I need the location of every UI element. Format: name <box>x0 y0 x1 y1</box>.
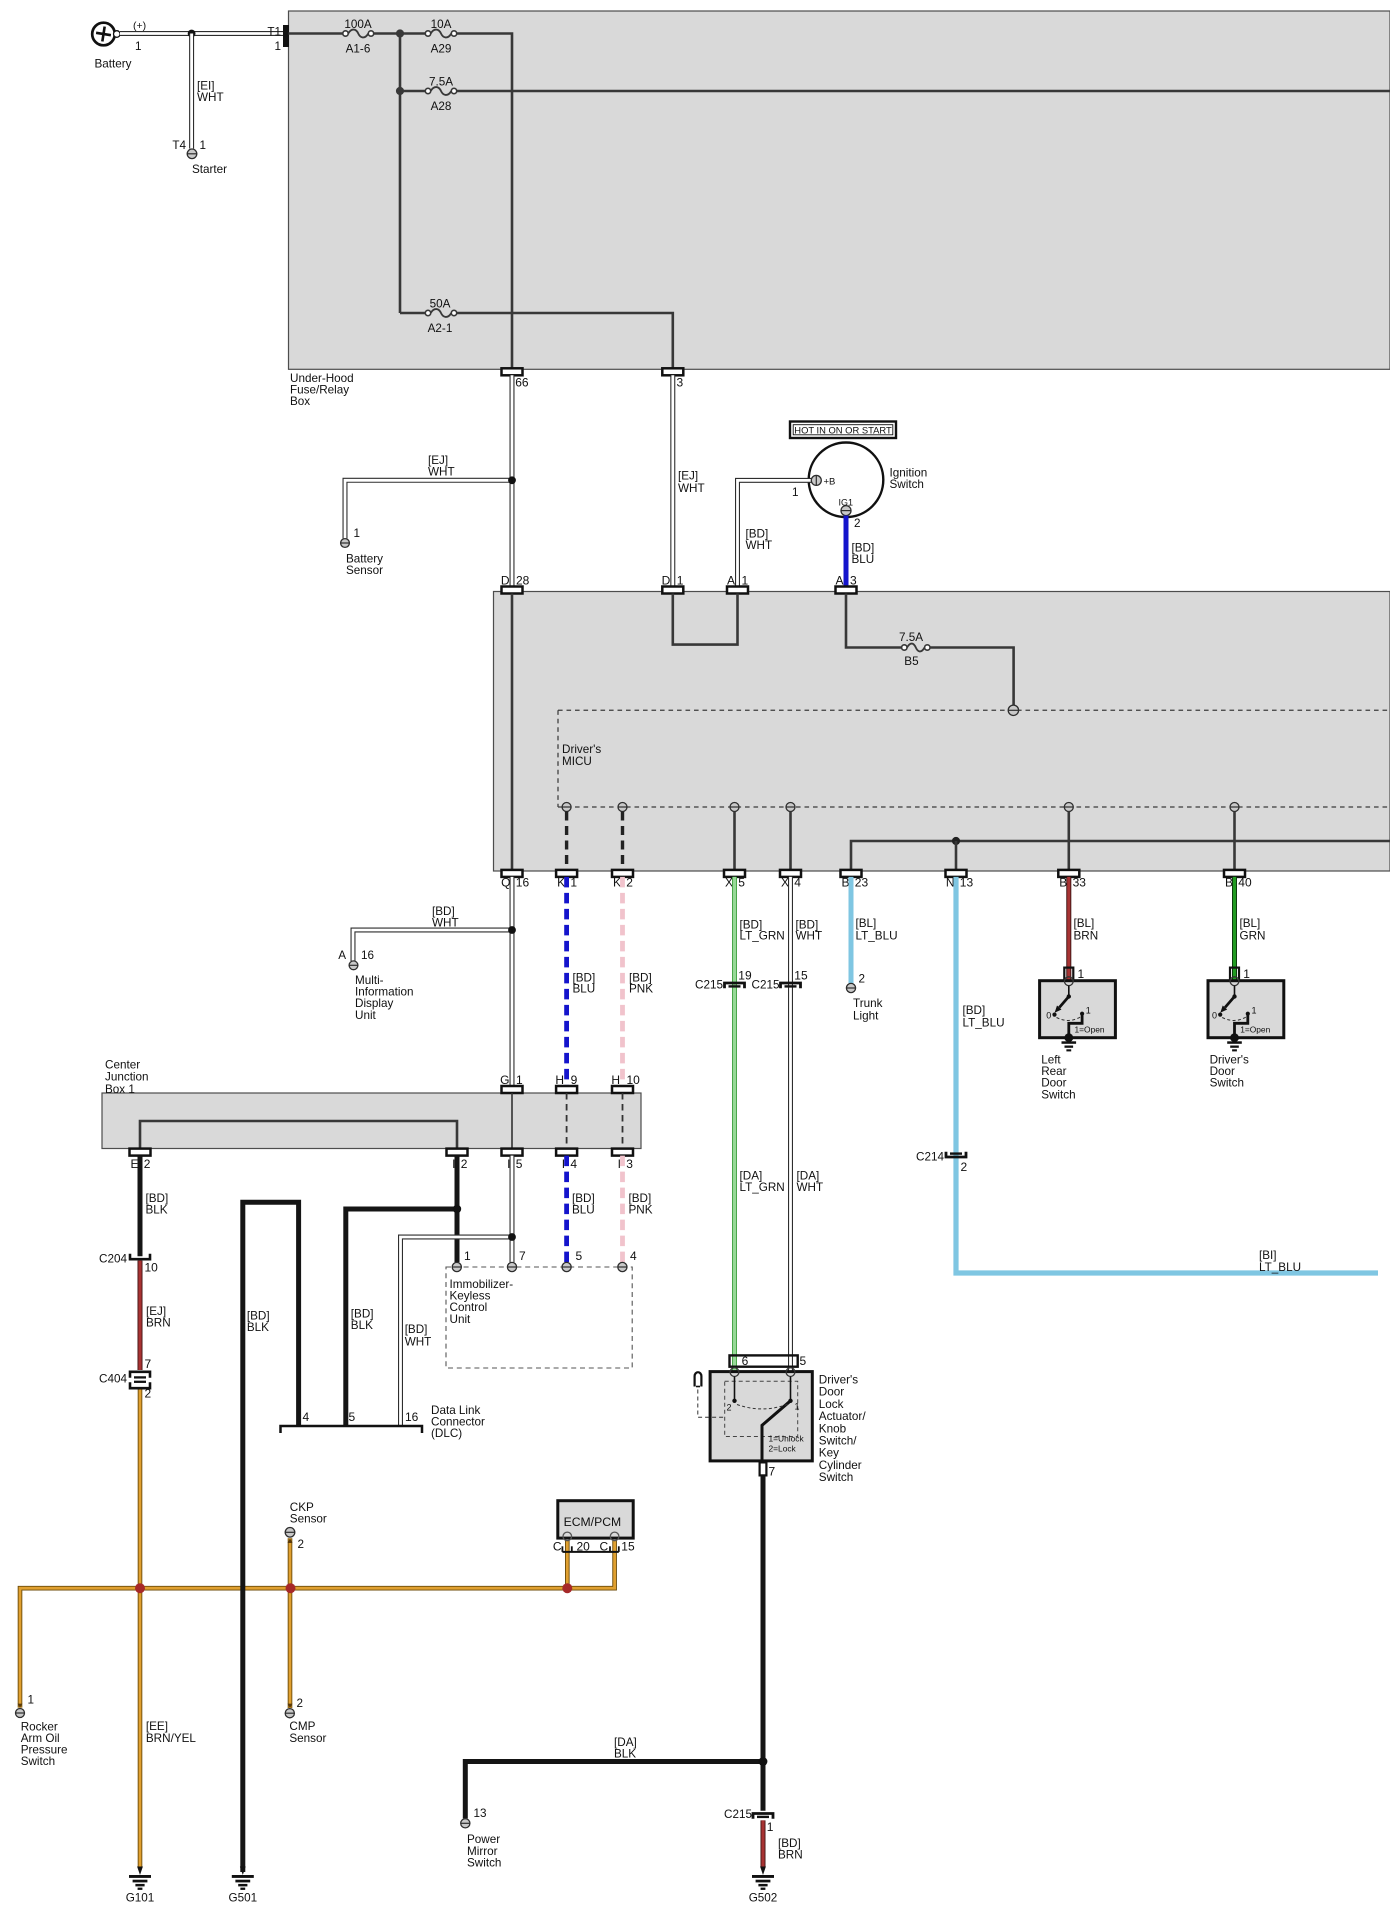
svg-text:BLU: BLU <box>852 553 875 566</box>
svg-text:BRN: BRN <box>1074 929 1099 942</box>
svg-text:C404: C404 <box>99 1373 127 1386</box>
svg-text:Box: Box <box>290 395 310 408</box>
connector C215 pin 19 <box>725 983 745 988</box>
svg-text:G501: G501 <box>229 1892 258 1905</box>
svg-text:0: 0 <box>1046 1011 1051 1021</box>
svg-text:(DLC): (DLC) <box>431 1427 462 1440</box>
svg-text:16: 16 <box>361 949 374 962</box>
pin H9 CJB top <box>556 1086 577 1093</box>
svg-text:1: 1 <box>795 1402 800 1412</box>
svg-text:Knob: Knob <box>819 1422 847 1435</box>
bus wire to B23/N13 <box>851 841 1390 870</box>
wire K2 to H10 [BD] PNK dashed <box>620 877 625 1086</box>
pin H10 CJB top <box>612 1086 633 1093</box>
Driver's MICU dashed boundary <box>558 709 1390 711</box>
svg-text:1: 1 <box>677 574 684 588</box>
dashed link key to switch <box>698 1390 725 1418</box>
ground left rear door switch <box>1064 1033 1073 1042</box>
svg-text:3: 3 <box>677 375 684 389</box>
terminal immobilizer 7 <box>507 1262 516 1271</box>
svg-text:40: 40 <box>1238 876 1252 890</box>
svg-text:A29: A29 <box>431 43 452 56</box>
svg-text:[BI]: [BI] <box>1259 1249 1277 1262</box>
svg-text:B: B <box>1225 876 1233 890</box>
svg-text:1: 1 <box>354 527 361 540</box>
svg-text:2: 2 <box>854 517 861 530</box>
svg-text:1: 1 <box>200 139 207 152</box>
wire D1 to A1 inside box <box>673 594 738 645</box>
pin 3 <box>662 368 683 375</box>
wire G1 to I5 inside CJB <box>511 1093 513 1149</box>
wire H9 to I4 inside CJB dashed <box>566 1093 568 1149</box>
svg-text:Trunk: Trunk <box>853 997 883 1010</box>
terminal T4 starter <box>187 149 197 159</box>
svg-text:2: 2 <box>726 1403 731 1413</box>
svg-text:T4: T4 <box>172 139 186 152</box>
svg-text:5: 5 <box>516 1157 523 1171</box>
wire MICU to X4 <box>789 812 792 870</box>
svg-text:19: 19 <box>738 969 752 983</box>
wire X4 to door lock [BD]/[DA] WHT <box>788 877 793 1372</box>
svg-text:H: H <box>611 1073 620 1087</box>
key symbol <box>695 1372 702 1386</box>
switch blade left rear door switch <box>1068 986 1070 996</box>
svg-text:Sensor: Sensor <box>290 1513 327 1526</box>
svg-text:WHT: WHT <box>405 1336 432 1349</box>
wire B23 to trunk light [BL] LT_BLU <box>849 877 854 984</box>
junction orange at ECM C20 <box>562 1583 572 1593</box>
svg-text:13: 13 <box>474 1807 487 1820</box>
svg-text:1=Open: 1=Open <box>1075 1025 1105 1035</box>
wire I5 to immobilizer 7 [BD] WHT <box>510 1156 515 1263</box>
svg-text:13: 13 <box>960 876 974 890</box>
pin B40 under-dash box bottom <box>1224 870 1245 877</box>
door lock connector block <box>730 1355 798 1366</box>
junction DLC16 branch <box>508 1233 516 1241</box>
svg-text:B5: B5 <box>904 655 919 668</box>
terminal IG1 <box>841 506 851 516</box>
terminal ECM C15 <box>610 1532 619 1541</box>
junction fuse bus <box>396 29 404 37</box>
svg-text:BLK: BLK <box>146 1204 168 1217</box>
svg-text:2: 2 <box>297 1697 304 1710</box>
svg-text:5: 5 <box>738 876 745 890</box>
svg-text:Center: Center <box>105 1059 140 1072</box>
svg-text:15: 15 <box>794 969 808 983</box>
svg-text:1: 1 <box>28 1694 35 1707</box>
svg-text:C: C <box>553 1540 562 1554</box>
svg-text:E: E <box>130 1157 138 1171</box>
HOT IN ON OR START box <box>790 422 896 439</box>
svg-text:1: 1 <box>274 40 281 53</box>
wire E2 to C204 [BD] BLK <box>138 1156 143 1257</box>
svg-text:WHT: WHT <box>797 1181 824 1194</box>
terminal driver's door switch <box>1230 977 1239 986</box>
wire fuse A29 to pin 66 <box>457 34 512 369</box>
svg-text:[EJ]: [EJ] <box>678 470 698 483</box>
pin B33 under-dash box bottom <box>1058 870 1079 877</box>
svg-text:WHT: WHT <box>432 917 459 930</box>
terminal MICU B5 input <box>1008 705 1018 715</box>
ECM connector bracket <box>562 1551 618 1553</box>
wire MICU to K2 dashed <box>621 812 624 870</box>
pin A1 under-dash box <box>727 587 748 594</box>
wire branch to DLC pin16 [BD] WHT <box>401 1237 513 1426</box>
svg-text:2: 2 <box>961 1160 968 1174</box>
svg-text:Unit: Unit <box>450 1313 472 1326</box>
svg-text:Key: Key <box>819 1447 839 1460</box>
wire contact1 to ground left rear door switch <box>1069 1014 1082 1038</box>
svg-text:BLK: BLK <box>614 1748 636 1761</box>
svg-text:[BD]: [BD] <box>963 1004 986 1017</box>
svg-text:33: 33 <box>1073 876 1087 890</box>
pin D1 under-dash box <box>662 587 683 594</box>
svg-text:10: 10 <box>627 1073 641 1087</box>
pin I4 CJB bottom <box>556 1149 577 1156</box>
wire X5 to door lock [BD]/[DA] LT_GRN <box>732 877 737 1372</box>
svg-text:LT_BLU: LT_BLU <box>856 929 898 942</box>
terminal trunk light <box>846 983 855 992</box>
svg-text:5: 5 <box>576 1249 583 1263</box>
connector C215 pin 15 <box>781 983 801 988</box>
svg-text:2: 2 <box>144 1157 151 1171</box>
DLC bracket <box>281 1426 423 1433</box>
svg-text:6: 6 <box>742 1354 749 1368</box>
under-dash fuse/relay box <box>494 592 1390 872</box>
svg-text:4: 4 <box>794 876 801 890</box>
pin I2 CJB bottom <box>447 1149 468 1156</box>
svg-text:7.5A: 7.5A <box>899 631 923 644</box>
svg-text:LT_BLU: LT_BLU <box>1259 1261 1301 1274</box>
terminal MICU X4 <box>786 803 795 812</box>
contact 1 driver's door switch <box>1246 1012 1250 1016</box>
door lock dashed arc <box>737 1404 788 1409</box>
svg-text:+B: +B <box>824 477 836 488</box>
svg-text:A2-1: A2-1 <box>428 322 453 335</box>
wire D28 to Q16 inside box <box>511 594 514 870</box>
connector C404 <box>130 1372 150 1378</box>
wire fuse A2-1 to pin 3 <box>457 313 673 368</box>
svg-text:[BL]: [BL] <box>856 917 877 930</box>
svg-text:7.5A: 7.5A <box>429 76 453 89</box>
wire contact1 to ground driver's door switch <box>1235 1014 1248 1038</box>
terminal T1 <box>283 25 289 47</box>
svg-text:A: A <box>727 574 735 588</box>
svg-text:1: 1 <box>1243 967 1250 981</box>
ground G502 <box>760 1867 766 1876</box>
svg-text:2: 2 <box>461 1157 468 1171</box>
connector C204 pin 10 <box>130 1254 150 1260</box>
svg-text:1: 1 <box>1086 1006 1091 1016</box>
svg-text:A: A <box>338 949 346 962</box>
terminal door lock 6 <box>730 1368 739 1377</box>
pin K1 under-dash box bottom <box>556 870 577 877</box>
svg-text:BLU: BLU <box>573 983 596 996</box>
svg-text:Door: Door <box>819 1386 844 1399</box>
dashed travel arc left rear door switch <box>1057 1017 1081 1020</box>
pin X4 under-dash box bottom <box>780 870 801 877</box>
svg-text:D: D <box>501 574 510 588</box>
wire IG1 to A3 [BD] BLU <box>844 516 849 587</box>
junction orange at CKP/CMP <box>286 1583 296 1593</box>
contact 0 driver's door switch <box>1218 1013 1222 1017</box>
wire pin3 to D1 [EJ] WHT <box>670 375 675 586</box>
junction power mirror branch <box>759 1757 768 1766</box>
pin A3 under-dash box <box>836 587 857 594</box>
svg-text:Sensor: Sensor <box>346 564 383 577</box>
door lock contact 2 <box>734 1377 736 1401</box>
Under-Hood Fuse/Relay Box <box>289 11 1390 369</box>
svg-text:2: 2 <box>298 1538 305 1551</box>
terminal CKP sensor <box>285 1528 295 1538</box>
pin I3 CJB bottom <box>612 1149 633 1156</box>
door lock contact 1 <box>790 1377 792 1401</box>
wire branch to battery sensor [EJ] WHT <box>345 480 512 538</box>
svg-text:C215: C215 <box>752 979 780 992</box>
svg-text:7: 7 <box>769 1465 776 1479</box>
svg-text:N: N <box>946 876 955 890</box>
dashed travel arc driver's door switch <box>1222 1017 1246 1020</box>
terminal multi-info display <box>349 961 358 970</box>
junction battery sensor branch <box>508 476 516 484</box>
ground driver's door switch <box>1230 1033 1239 1042</box>
svg-text:7: 7 <box>519 1249 526 1263</box>
fuse 50A A2-1 <box>431 309 452 317</box>
wire B40 to driver's door switch [BL] GRN <box>1232 877 1237 980</box>
svg-text:A1-6: A1-6 <box>346 43 371 56</box>
svg-text:PNK: PNK <box>629 1204 653 1217</box>
wire A3 to fuse B5 <box>846 594 902 648</box>
terminal +B <box>811 475 821 485</box>
terminal immobilizer 4 <box>618 1262 627 1271</box>
battery B1 positive terminal <box>92 23 115 46</box>
pin G1 CJB top <box>502 1086 523 1093</box>
ground G501 <box>240 1867 246 1876</box>
terminal battery sensor <box>341 539 350 548</box>
pin X5 under-dash box bottom <box>724 870 745 877</box>
svg-text:1: 1 <box>1252 1006 1257 1016</box>
wire to starter [EI] WHT <box>189 34 194 149</box>
wire battery to T1 [EI] WHT <box>120 31 283 36</box>
door switch box driver's door switch <box>1208 981 1284 1038</box>
svg-text:B: B <box>841 876 849 890</box>
svg-text:Switch: Switch <box>1041 1088 1075 1101</box>
svg-text:IG1: IG1 <box>839 498 854 508</box>
door switch box left rear door switch <box>1040 981 1116 1038</box>
fuse 10A A29 <box>431 30 452 38</box>
svg-text:Cylinder: Cylinder <box>819 1459 862 1472</box>
svg-text:4: 4 <box>630 1249 637 1263</box>
svg-text:Q: Q <box>501 876 510 890</box>
fuse 7.5A B5 <box>907 644 925 652</box>
svg-text:1=Open: 1=Open <box>1240 1025 1270 1035</box>
svg-text:1: 1 <box>792 486 799 499</box>
svg-text:WHT: WHT <box>197 91 224 104</box>
wire C204 to C404 [EJ] BRN <box>138 1261 143 1370</box>
svg-text:X: X <box>781 876 789 890</box>
wire N13 [BD] LT_BLU <box>956 877 1378 1273</box>
wire C404 to G101 [EE] BRN/YEL <box>138 1390 143 1868</box>
svg-text:1: 1 <box>742 574 749 588</box>
wire K1 to H9 [BD] BLU dashed <box>564 877 569 1086</box>
svg-text:Switch: Switch <box>467 1857 501 1870</box>
svg-text:BLK: BLK <box>351 1319 373 1332</box>
svg-text:K: K <box>613 876 621 890</box>
svg-text:GRN: GRN <box>1240 929 1266 942</box>
svg-text:C215: C215 <box>724 1808 752 1821</box>
ground G101 <box>137 1867 143 1876</box>
wire pin66 to D28 [EJ] WHT <box>510 375 515 586</box>
terminal ECM C20 <box>563 1532 572 1541</box>
wire H10 to I3 inside CJB dashed <box>622 1093 624 1149</box>
svg-text:C: C <box>600 1540 609 1554</box>
terminal door lock 5 <box>786 1368 795 1377</box>
svg-text:G101: G101 <box>126 1892 155 1905</box>
door lock actuator box <box>710 1372 812 1461</box>
svg-text:[BD]: [BD] <box>405 1323 428 1336</box>
svg-text:Driver's: Driver's <box>819 1374 858 1387</box>
pin I5 CJB bottom <box>502 1149 523 1156</box>
contact 1 left rear door switch <box>1080 1012 1084 1016</box>
svg-text:BRN: BRN <box>778 1849 803 1862</box>
door lock inner dashed box <box>725 1381 798 1436</box>
svg-text:3: 3 <box>850 574 857 588</box>
svg-text:16: 16 <box>516 876 530 890</box>
svg-text:A: A <box>835 574 843 588</box>
svg-text:MICU: MICU <box>562 755 592 768</box>
terminal MICU X5 <box>730 803 739 812</box>
terminal rocker arm oil pressure switch <box>16 1709 25 1718</box>
svg-text:C204: C204 <box>99 1253 127 1266</box>
svg-text:16: 16 <box>405 1410 419 1424</box>
wire B33 to left rear door switch [BL] BRN <box>1066 877 1071 980</box>
svg-text:Starter: Starter <box>192 163 227 176</box>
connector pin 1 left rear door switch <box>1064 968 1073 982</box>
svg-text:9: 9 <box>571 1073 578 1087</box>
svg-text:WHT: WHT <box>746 539 773 552</box>
wire ECM C20 to bus <box>565 1541 570 1589</box>
svg-text:1: 1 <box>516 1073 523 1087</box>
wire T1 to fuse A1-6 <box>289 32 343 35</box>
svg-text:Switch/: Switch/ <box>819 1435 857 1448</box>
svg-text:5: 5 <box>800 1354 807 1368</box>
terminal CMP sensor <box>285 1709 294 1718</box>
junction 7.5A branch <box>396 87 404 95</box>
svg-text:Junction: Junction <box>105 1071 149 1084</box>
fuse 100A A1-6 <box>348 30 368 38</box>
connector pin 1 driver's door switch <box>1230 968 1239 982</box>
wire I2 to DLC pin5 and immobilizer [BD] BLK <box>346 1156 457 1426</box>
svg-text:G: G <box>500 1073 509 1087</box>
svg-text:BLK: BLK <box>247 1321 269 1334</box>
wire MICU to K1 dashed <box>565 812 568 870</box>
svg-text:LT_GRN: LT_GRN <box>740 1181 785 1194</box>
terminal power mirror switch <box>461 1819 470 1828</box>
ECM/PCM box <box>558 1501 633 1538</box>
wire to fuse A2-1 <box>400 312 425 315</box>
svg-text:5: 5 <box>349 1410 356 1424</box>
wire C215 to G502 [BD] BRN <box>761 1820 766 1867</box>
connector C215 pin 1 <box>753 1814 773 1819</box>
contact 0 left rear door switch <box>1052 1013 1056 1017</box>
svg-text:10A: 10A <box>431 18 452 31</box>
svg-text:1: 1 <box>767 1820 774 1834</box>
wire fuse to junction <box>374 32 426 35</box>
wire Q16 to G1 [BD] WHT <box>510 877 515 1086</box>
pin E2 CJB bottom <box>130 1149 151 1156</box>
svg-text:66: 66 <box>515 375 529 389</box>
svg-text:H: H <box>555 1073 564 1087</box>
svg-text:Switch: Switch <box>890 478 924 491</box>
wire door lock to C215 [DA] BLK <box>761 1475 766 1761</box>
connector C214 pin 2 <box>946 1152 966 1157</box>
svg-text:28: 28 <box>516 574 530 588</box>
svg-text:WHT: WHT <box>678 482 705 495</box>
wire junction to N13 <box>955 841 958 870</box>
svg-text:20: 20 <box>577 1540 591 1554</box>
svg-text:LT_BLU: LT_BLU <box>963 1016 1005 1029</box>
svg-text:1: 1 <box>570 876 577 890</box>
svg-text:[BL]: [BL] <box>1074 917 1095 930</box>
svg-text:Box 1: Box 1 <box>105 1083 135 1096</box>
svg-text:BLU: BLU <box>572 1204 595 1217</box>
terminal MICU B33 <box>1064 803 1073 812</box>
svg-text:Unit: Unit <box>355 1009 377 1022</box>
wire +B to A1 [BD] WHT <box>738 480 813 586</box>
terminal MICU K1 <box>562 803 571 812</box>
svg-text:X: X <box>725 876 733 890</box>
svg-text:3: 3 <box>626 1157 633 1171</box>
svg-text:D: D <box>662 574 671 588</box>
svg-text:BRN/YEL: BRN/YEL <box>146 1732 197 1745</box>
pin 66 <box>502 368 523 375</box>
svg-text:Switch: Switch <box>819 1471 853 1484</box>
junction MID branch <box>508 926 516 934</box>
svg-text:1=Unlock: 1=Unlock <box>769 1434 805 1444</box>
svg-text:Switch: Switch <box>1210 1077 1244 1090</box>
svg-text:BRN: BRN <box>146 1317 171 1330</box>
svg-text:4: 4 <box>570 1157 577 1171</box>
wire E2 to I2 inside CJB <box>140 1121 457 1149</box>
Center Junction Box 1 <box>102 1093 641 1149</box>
pin D28 under-dash box <box>502 587 523 594</box>
wire CKP to CMP sensor <box>288 1538 293 1708</box>
pin K2 under-dash box bottom <box>612 870 633 877</box>
svg-text:K: K <box>557 876 565 890</box>
ignition switch SW1 <box>809 443 884 518</box>
svg-text:Actuator/: Actuator/ <box>819 1410 867 1423</box>
svg-text:23: 23 <box>855 876 869 890</box>
svg-text:Switch: Switch <box>21 1755 55 1768</box>
terminal left rear door switch <box>1064 977 1073 986</box>
svg-text:2: 2 <box>145 1387 152 1401</box>
svg-text:WHT: WHT <box>796 930 823 943</box>
svg-text:100A: 100A <box>344 18 372 31</box>
wire to fuse A28 <box>400 90 425 93</box>
svg-text:PNK: PNK <box>629 983 653 996</box>
wire I3 to immobilizer 4 [BD] PNK dashed <box>620 1156 625 1262</box>
terminal MICU K2 <box>618 803 627 812</box>
svg-text:2: 2 <box>859 973 866 986</box>
wire fuse A28 to right edge <box>457 90 1390 93</box>
Immobilizer-Keyless Control Unit dashed box <box>446 1267 632 1368</box>
wire fuse B5 to MICU <box>930 648 1014 706</box>
svg-text:C215: C215 <box>695 979 723 992</box>
wire I4 to immobilizer 5 [BD] BLU dashed <box>564 1156 569 1262</box>
svg-text:15: 15 <box>621 1540 635 1554</box>
svg-text:A28: A28 <box>431 100 452 113</box>
wire MICU to B33 <box>1068 812 1071 870</box>
